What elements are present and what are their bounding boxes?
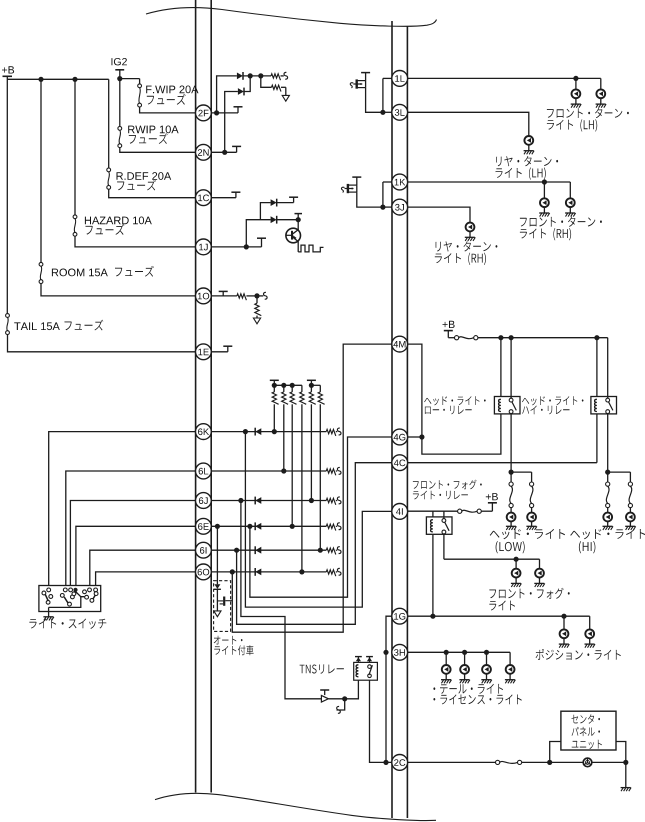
sensor triangle TNS xyxy=(321,696,328,703)
resistor bank R8 xyxy=(301,385,303,392)
connector 1L xyxy=(392,71,408,87)
fuse HAZARD 10A xyxy=(73,215,77,219)
junction row 6J column xyxy=(309,498,314,503)
label TNS relay xyxy=(300,664,344,673)
wire bank column 2 xyxy=(283,404,285,471)
wire 2F node xyxy=(211,112,238,114)
wire 1O node xyxy=(211,295,237,297)
wire D3 to T terminal xyxy=(276,202,293,204)
illumination lamp 2C xyxy=(583,758,592,767)
zener diode autolight xyxy=(214,584,220,589)
junction 6E autolight xyxy=(215,524,220,529)
connector inline +B xyxy=(448,337,454,339)
fuse ROOM 15A xyxy=(39,262,43,266)
lamp front turn LH 2 xyxy=(600,78,602,89)
connector 2C xyxy=(392,755,408,771)
terminal T at 1C xyxy=(235,192,237,198)
wire TNS contact to 2C xyxy=(370,680,392,762)
transistor turn output xyxy=(341,187,344,192)
connector 3H xyxy=(392,644,408,660)
transistor turn output xyxy=(350,83,353,88)
tail lamp 2 xyxy=(464,652,466,665)
wire 4G stub xyxy=(408,436,422,438)
terminal T at 1E xyxy=(227,346,229,352)
transistor Q1 flasher xyxy=(286,228,301,243)
connector 6K xyxy=(196,424,212,440)
label rear turn LH xyxy=(496,156,558,166)
wire to high relay coil xyxy=(596,338,598,397)
relay headlight high xyxy=(591,397,617,414)
connector 1O xyxy=(196,288,212,304)
resistor bank R7 xyxy=(291,385,293,392)
junction 3J xyxy=(380,205,385,210)
resistor row 6O xyxy=(326,570,336,576)
wire to low relay contact xyxy=(510,338,512,399)
connector 4I xyxy=(392,504,408,520)
wire bank column 5 xyxy=(310,404,312,500)
position lamp 1 xyxy=(563,616,565,629)
wire 6E to autolight module xyxy=(216,526,218,584)
wire 2C ground xyxy=(625,762,627,787)
fuse RWIP 10A xyxy=(118,126,122,130)
label tail lights xyxy=(433,684,503,694)
wire 2C to center panel xyxy=(408,761,496,763)
resistor R4 to ground xyxy=(256,296,258,303)
light switch ground xyxy=(48,607,50,616)
junction row 6O column xyxy=(299,569,304,574)
wire 3H to tail lamps xyxy=(408,651,511,653)
fuse TAIL 15A xyxy=(6,314,10,318)
wire 1L to 3L tie xyxy=(383,77,392,79)
fuse F.WIP 20A xyxy=(138,84,142,88)
autolight dashed box xyxy=(214,581,231,632)
label fog light relay xyxy=(413,480,482,490)
wire 1E node xyxy=(211,351,228,353)
connector 1K xyxy=(392,174,408,190)
wire D2 anode to 2N xyxy=(225,92,238,153)
wire IG2 to F.WIP fuse xyxy=(120,78,140,80)
label headlight high relay xyxy=(522,396,584,405)
resistor row 6K xyxy=(326,429,336,435)
connector 3L xyxy=(392,104,408,120)
headlamp HI 1 xyxy=(607,472,609,482)
junction 3H tie xyxy=(383,650,388,655)
headlamp HI 2 xyxy=(629,472,631,482)
wire high relay to headlights HI xyxy=(607,414,609,472)
wire row 6O xyxy=(211,571,326,573)
wire low relay to headlights LOW xyxy=(510,414,512,472)
wire TNS coil return xyxy=(345,681,359,699)
wire igniter to 3L xyxy=(366,88,383,113)
wire 1J up branch xyxy=(246,220,270,247)
terminal T sensor xyxy=(324,690,326,695)
terminal T at 2N xyxy=(236,146,238,152)
connector 1G xyxy=(392,608,408,624)
wire 1C node xyxy=(211,197,236,199)
wire 3L to rear turn LH xyxy=(408,112,529,136)
connector 6O xyxy=(196,564,212,580)
wire 4C to high relay coil xyxy=(408,462,597,464)
headlamp LOW 2 xyxy=(531,472,533,482)
right bus bar xyxy=(391,21,393,818)
wire 1G to position lamps xyxy=(408,615,590,617)
terminal T TNS coil xyxy=(357,657,359,663)
node +B terminal xyxy=(2,66,14,73)
junction TNS xyxy=(342,696,347,701)
label headlight HI xyxy=(570,529,645,539)
connector inline 2C xyxy=(496,760,500,764)
ground 1O xyxy=(256,316,258,318)
wire 1G left tie xyxy=(386,616,392,762)
connector 6J xyxy=(196,493,212,509)
wire to center panel unit left xyxy=(550,742,561,763)
junction +B to ROOM fuse xyxy=(38,77,43,82)
tail lamp 3 xyxy=(486,652,488,665)
wire 6J to TNS relay xyxy=(241,501,322,699)
terminal T transistor xyxy=(365,73,367,81)
tail lamp 1 xyxy=(445,652,447,665)
wire to low relay coil xyxy=(500,338,502,397)
position lamp 2 xyxy=(589,616,591,629)
junction row 6K column xyxy=(272,429,277,434)
wire row 6I xyxy=(211,549,326,551)
terminal T TNS contact xyxy=(369,657,371,663)
node +B headlight xyxy=(443,321,455,328)
left bus bar xyxy=(195,0,197,793)
wire 6E to 4G bracket xyxy=(250,437,392,597)
junction A xyxy=(248,73,253,78)
junction flasher xyxy=(296,217,301,222)
label position lights xyxy=(536,649,621,660)
wire 6I to light switch xyxy=(90,550,196,585)
junction B xyxy=(258,73,263,78)
terminal T above junction xyxy=(297,214,299,220)
ground autolight xyxy=(216,604,218,611)
connector 6E xyxy=(196,518,212,534)
fog lamp 1 xyxy=(515,559,517,569)
connector 1C xyxy=(196,190,212,206)
wire 6J to light switch xyxy=(70,501,195,586)
wire zener to transistor xyxy=(216,589,218,604)
wire 4I to fog relay xyxy=(408,510,458,512)
lamp front turn LH 1 xyxy=(575,78,577,89)
wire 3J to rear turn RH xyxy=(408,207,471,223)
diode row 6I xyxy=(254,546,256,554)
connector 6L xyxy=(196,463,212,479)
wire 6I to 4C bracket xyxy=(237,463,392,625)
wire fog coil to 1G xyxy=(432,535,434,617)
wire row 6L xyxy=(211,470,326,472)
junction IG2 xyxy=(117,76,122,81)
label fog lights xyxy=(489,588,569,599)
terminal T at 2F xyxy=(237,107,239,113)
lamp rear turn LH xyxy=(524,136,533,145)
terminal T resistor bank 1 xyxy=(273,380,275,385)
wire junction B to resistor R2 xyxy=(261,76,272,87)
light switch box xyxy=(39,586,101,612)
wire 1L to front turn LH xyxy=(408,77,601,79)
wire 6K to 4I bracket xyxy=(245,432,392,607)
node IG2 terminal xyxy=(112,58,127,65)
wire 2F up branch xyxy=(217,76,237,113)
wire fog relay to fog lamps xyxy=(443,534,445,559)
diode D2 xyxy=(238,88,244,95)
connector 2F xyxy=(196,105,212,121)
wire to diode D2 xyxy=(244,76,251,92)
wire row 6J xyxy=(211,500,326,502)
wire 1K to 3J tie xyxy=(383,181,392,183)
terminal T transistor xyxy=(356,177,358,185)
diode D3 upper xyxy=(271,199,277,206)
junction 1O xyxy=(254,293,259,298)
wire 4M to low relay coil xyxy=(408,344,501,454)
wire riser to upper diode xyxy=(260,203,270,220)
junction row 6I column xyxy=(318,548,323,553)
wire row 6K xyxy=(211,431,326,433)
resistor row 6E xyxy=(326,524,336,530)
label front turn RH xyxy=(520,216,602,226)
ground floating xyxy=(285,87,287,95)
wire 6L to light switch xyxy=(66,471,196,586)
resistor R1 xyxy=(271,74,281,80)
fog lamp 2 xyxy=(539,559,541,569)
resistor bank R10 xyxy=(319,385,321,392)
junction center panel right xyxy=(623,760,628,765)
wire bank column 4 xyxy=(301,404,303,572)
junction +B to HAZARD fuse xyxy=(72,77,77,82)
wire to fog relay contact xyxy=(443,511,445,518)
wire bank column 6 xyxy=(319,404,321,550)
connector 1J xyxy=(196,239,212,255)
wire 6O to 4M bracket xyxy=(232,344,392,632)
diode D1 2F xyxy=(237,73,243,80)
junction 4G xyxy=(419,434,424,439)
wire to high relay contact xyxy=(607,338,609,399)
resistor R2 xyxy=(272,85,282,91)
waveform flasher output xyxy=(297,242,299,252)
node +B fog xyxy=(486,493,498,500)
wire 6O to light switch xyxy=(96,572,196,586)
relay headlight low xyxy=(494,397,520,414)
junction row 6E column xyxy=(290,524,295,529)
wire 6K to light switch xyxy=(49,432,196,586)
label autolight xyxy=(214,636,243,645)
label center panel unit xyxy=(572,714,601,723)
wire +B feed bus xyxy=(6,76,8,313)
connector 4C xyxy=(392,455,408,471)
resistor bank R9 xyxy=(310,385,312,392)
junction row 6L column xyxy=(281,468,286,473)
headlamp LOW 1 xyxy=(510,472,512,482)
connector 4M xyxy=(392,336,408,352)
resistor R3 xyxy=(237,294,246,300)
connector 3J xyxy=(392,199,408,215)
label headlight low relay xyxy=(424,396,486,405)
wire D4 to junction xyxy=(276,219,298,221)
wire bank column 3 xyxy=(291,404,293,526)
lamp front turn RH 2 xyxy=(569,182,571,198)
diode row 6J xyxy=(254,497,256,505)
wire to fog relay coil xyxy=(432,511,434,517)
wire TNS junction hook xyxy=(337,699,345,710)
wire 2N node xyxy=(211,151,236,153)
resistor bank R6 xyxy=(283,385,285,392)
transistor autolight xyxy=(223,597,225,606)
diode row 6K xyxy=(254,428,256,436)
resistor row 6L xyxy=(326,469,336,475)
lamp front turn RH 1 xyxy=(543,182,545,198)
relay fog light xyxy=(426,517,452,534)
label light switch xyxy=(29,619,106,629)
connector 6I xyxy=(196,542,212,558)
terminal T at 1O xyxy=(222,291,224,296)
wire 1K to front turn RH xyxy=(408,181,571,183)
label rear turn RH xyxy=(436,241,498,251)
wire top break line xyxy=(146,7,437,26)
resistor bank R5 xyxy=(273,385,275,392)
wire junction down to transistor Q1 xyxy=(297,220,299,230)
wire 6E to light switch xyxy=(76,526,196,585)
terminal T at 1J xyxy=(261,238,263,247)
diode row 6O xyxy=(254,568,256,576)
wire bottom break line xyxy=(155,793,436,820)
label headlight LOW xyxy=(490,529,565,539)
connector 4G xyxy=(392,429,408,445)
center panel unit box xyxy=(561,711,616,750)
resistor row 6J xyxy=(326,498,336,504)
label front turn LH xyxy=(547,108,629,118)
terminal T resistor bank 2 xyxy=(310,380,312,385)
fuse R.DEF 20A xyxy=(107,168,111,172)
wire igniter to 3J xyxy=(357,192,383,207)
tail lamp 4 xyxy=(509,652,511,665)
connector 1E xyxy=(196,344,212,360)
connector 2N xyxy=(196,144,212,160)
diode row 6E xyxy=(254,522,256,530)
wire 1J node xyxy=(211,246,261,248)
lamp rear turn RH xyxy=(466,223,475,232)
wire to center panel unit right xyxy=(616,742,626,763)
resistor row 6I xyxy=(326,548,336,554)
wire resistor bank bus 1 xyxy=(274,384,302,386)
wire bank column 1 xyxy=(273,404,275,431)
junction 3L xyxy=(380,110,385,115)
wire +B to relays xyxy=(478,337,608,339)
wire row 6E xyxy=(211,525,326,527)
junction center panel left xyxy=(547,760,552,765)
wire resistor bank bus 2 xyxy=(311,384,320,386)
wire diode D1 to resistor xyxy=(243,75,271,77)
relay TNS box xyxy=(354,662,378,680)
light switch contacts xyxy=(47,588,51,592)
junction 2C tie xyxy=(383,760,388,765)
diode D4 lower xyxy=(271,216,277,223)
